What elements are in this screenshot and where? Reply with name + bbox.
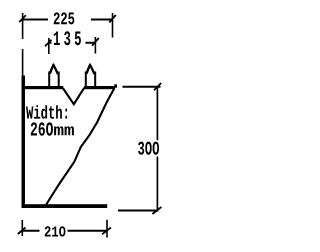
- dimension 210: right extension line: [106, 220, 108, 238]
- dimension 210: dimension line: [22, 230, 107, 232]
- dimension 135: left extension line: [48, 38, 50, 54]
- lug bump 1 pointed cap: [48, 63, 59, 74]
- dimension 135: right extension line: [94, 37, 96, 54]
- label "260mm": [31, 122, 53, 135]
- dimension 300: label "300": [138, 142, 159, 155]
- dimension 300: top arrow tick: [154, 83, 161, 90]
- kerb top right corner nub: [114, 84, 117, 87]
- label "Width:": [26, 105, 67, 119]
- kerb top surface left segment: [22, 86, 64, 89]
- dimension 300: bottom leader line: [118, 210, 159, 212]
- dimension 135: dimension line: [49, 42, 96, 44]
- lug bump 2 pointed cap: [85, 63, 96, 74]
- dimension 300: bottom arrow tick: [152, 207, 161, 214]
- dimension 210: right arrow tick: [102, 228, 111, 235]
- dimension 135: label "135": [54, 31, 81, 45]
- sloped back face (diagonal): [46, 88, 114, 205]
- dimension 300: top leader line: [123, 86, 161, 88]
- kerb top surface right segment: [84, 86, 115, 89]
- dimension 210: left extension line: [21, 220, 23, 236]
- dimension 300: vertical dimension line: [156, 87, 158, 210]
- dimension 225: right extension line: [112, 13, 114, 38]
- dimension 210: left arrow tick: [18, 228, 26, 235]
- kerb left wall: [22, 76, 26, 209]
- dimension 225: label "225": [54, 12, 75, 24]
- dimension 225: left arrow tick: [19, 15, 26, 22]
- dimension 225: left extension line: [22, 13, 24, 76]
- dimension 135: right arrow tick: [92, 38, 99, 46]
- kerb cross-section dimensioned drawing: [0, 0, 176, 252]
- dimension 225: dimension line: [23, 19, 113, 21]
- lug bump 2 sides: [86, 72, 95, 89]
- dimension 225: right arrow tick: [109, 15, 116, 23]
- dimension 210: label "210": [45, 226, 66, 236]
- kerb bottom slab: [22, 204, 108, 208]
- lug bump 1 sides: [49, 72, 59, 89]
- V notch: [63, 88, 84, 104]
- dimension 135: left arrow tick: [45, 40, 52, 47]
